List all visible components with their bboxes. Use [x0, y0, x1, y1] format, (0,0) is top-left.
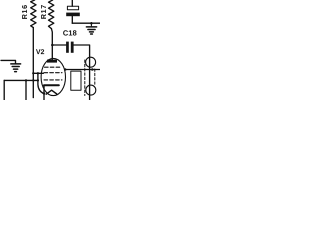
junction dot (screen to jack wire) [64, 68, 67, 71]
tube V2 plate (top cap) [47, 60, 57, 63]
junction dot (jack wire) [91, 68, 94, 71]
tube V2 cathode [44, 84, 59, 86]
tube V2 grid 2 (dashed) [45, 66, 62, 68]
ground (top right) [86, 23, 96, 34]
tube V2 envelope [41, 58, 65, 95]
junction dot [37, 72, 39, 74]
wire through jacks [89, 57, 91, 100]
capacitor C18 left plate [66, 42, 69, 53]
tube V2 grid 3 (dashed) [44, 79, 62, 81]
tube V2 heater [46, 90, 57, 94]
label R16 [22, 5, 27, 19]
dashed shield line left [84, 60, 86, 96]
dashed shield line right [94, 69, 96, 85]
tube V2 cathode lead [43, 85, 45, 100]
wire R16 lead down [32, 28, 34, 98]
wire vertical x38 with curve to cathode lead [38, 73, 44, 93]
junction dot [37, 79, 39, 81]
wire plate node to C18 [52, 44, 66, 46]
label C18 [63, 30, 76, 35]
wire C18 to jack [74, 45, 90, 57]
capacitor electrolytic top plate [67, 6, 78, 9]
label V2 [36, 49, 44, 54]
junction dot [25, 79, 27, 81]
jack J1 (top circle) [86, 57, 96, 67]
wire loop bottom left (left side) [3, 80, 5, 100]
wire grid1 from left [33, 72, 43, 74]
wire R17 lead down to plate [50, 29, 53, 60]
tube V2 grid 1 (dashed) [44, 72, 62, 74]
resistor R17 [49, 0, 54, 29]
wire left edge to ground [1, 60, 16, 63]
jack J2 (bottom circle) [86, 85, 96, 95]
junction dot [32, 79, 34, 81]
wire screen to right edge [65, 69, 100, 71]
ground (left) [11, 64, 21, 72]
capacitor C18 right plate [71, 42, 74, 53]
capacitor electrolytic top lead [71, 0, 73, 6]
wire to right edge [72, 22, 100, 24]
junction dot (plate node) [51, 44, 54, 47]
wire cathode bus [4, 79, 38, 81]
wire loop bottom left (right side) [25, 80, 27, 100]
junction dot [32, 72, 34, 74]
junction dot [90, 22, 93, 25]
capacitor electrolytic bottom plate [66, 13, 80, 17]
wire cap bottom lead [71, 16, 73, 23]
box (shield) right [71, 71, 81, 90]
resistor R16 [31, 0, 36, 28]
label R17 [41, 5, 46, 19]
junction dot (cathode lead) [43, 92, 45, 94]
